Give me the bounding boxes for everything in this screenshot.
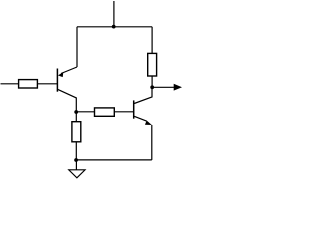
node bottom junction <box>74 158 78 162</box>
wire top rail <box>77 26 152 28</box>
transistor Q1 collector diagonal <box>58 89 77 112</box>
transistor Q2 base bar <box>133 100 135 118</box>
output arrow <box>174 84 182 91</box>
node collector junction <box>74 110 78 114</box>
wire bottom rail <box>76 159 152 161</box>
wire supply vertical <box>113 1 115 27</box>
transistor Q2 collector diagonal <box>134 87 152 103</box>
resistor R3 <box>72 122 81 142</box>
wire left branch down to Q1 emitter <box>76 27 78 67</box>
wire input to R1 <box>1 83 19 85</box>
wire R4 to output junction <box>151 76 153 87</box>
wire Q2 emitter to bottom rail <box>151 125 153 160</box>
wire rail to R4 <box>151 27 153 54</box>
transistor Q1 base bar <box>56 69 58 92</box>
wire R2 to Q2 base <box>114 111 133 113</box>
transistor Q1 emitter diagonal <box>61 67 77 74</box>
wire to ground <box>75 160 77 170</box>
wire output <box>152 86 174 88</box>
transistor Q2 emitter diagonal <box>134 116 146 121</box>
wire Q1 base to resistor R1 <box>37 83 57 85</box>
transistor Q1 emitter arrow (PNP, points into base bar) <box>58 72 63 77</box>
resistor R1 <box>19 80 38 88</box>
resistor R2 <box>95 108 115 116</box>
resistor R4 <box>148 53 157 76</box>
wire junction to R2 <box>76 111 94 113</box>
wire R3 to bottom rail <box>75 142 77 160</box>
node output junction <box>150 85 154 89</box>
transistor Q2 emitter arrow (NPN, points outward) <box>145 120 152 125</box>
wire junction to R3 <box>75 112 77 122</box>
node top junction <box>112 25 116 29</box>
ground <box>69 170 85 178</box>
